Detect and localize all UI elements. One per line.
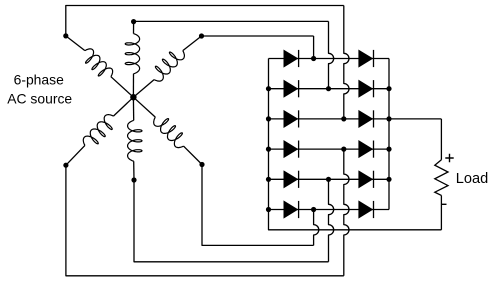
- svg-text:6-phase: 6-phase: [14, 72, 64, 88]
- svg-text:Load: Load: [456, 171, 488, 187]
- svg-text:AC source: AC source: [7, 91, 72, 107]
